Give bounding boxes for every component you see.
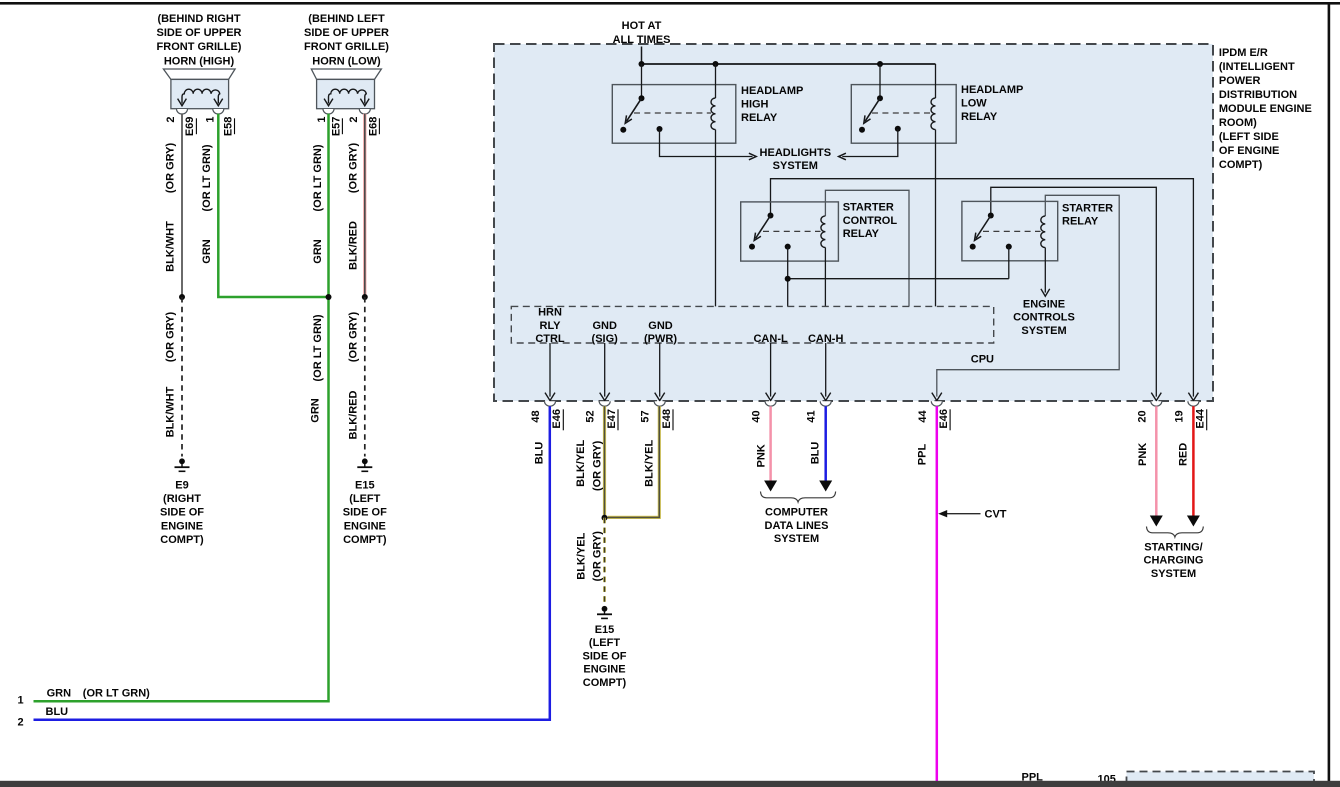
svg-text:(BEHIND RIGHT: (BEHIND RIGHT <box>157 13 240 25</box>
ground E9 <box>160 458 204 546</box>
svg-text:2: 2 <box>18 716 24 728</box>
dashed BLK/YEL wire to ground <box>575 518 604 605</box>
page frame top border <box>0 2 1340 5</box>
svg-text:20: 20 <box>1136 410 1148 422</box>
svg-text:STARTING/: STARTING/ <box>1144 541 1202 553</box>
svg-text:(OR GRY): (OR GRY) <box>165 143 177 194</box>
svg-text:RELAY: RELAY <box>741 112 778 124</box>
svg-text:DATA LINES: DATA LINES <box>765 520 829 532</box>
wire BLU pin 48 to bottom line 2 <box>34 406 550 720</box>
svg-text:19: 19 <box>1173 410 1185 422</box>
svg-text:(OR GRY): (OR GRY) <box>591 440 603 491</box>
svg-text:(OR GRY): (OR GRY) <box>347 312 359 363</box>
svg-text:E15: E15 <box>355 479 375 491</box>
horn LOW pin 2 connector <box>348 109 380 136</box>
starter relay box <box>962 201 1058 260</box>
wire PNK pin 20 <box>1137 406 1163 526</box>
page frame bottom bar <box>0 781 1340 787</box>
junction node GRN wires <box>326 294 332 300</box>
svg-text:RED: RED <box>1177 443 1189 466</box>
svg-text:CVT: CVT <box>985 509 1007 521</box>
svg-text:SIDE OF: SIDE OF <box>160 507 204 519</box>
svg-text:SYSTEM: SYSTEM <box>773 160 818 172</box>
svg-text:(OR LT GRN): (OR LT GRN) <box>83 687 150 699</box>
svg-text:GND: GND <box>648 320 673 332</box>
splice node on BLK/RED wire <box>362 294 368 300</box>
svg-text:CONTROLS: CONTROLS <box>1013 312 1075 324</box>
svg-text:CHARGING: CHARGING <box>1144 555 1204 567</box>
horn HIGH pin 2 connector <box>165 109 197 136</box>
svg-text:ENGINE: ENGINE <box>583 664 625 676</box>
svg-text:52: 52 <box>585 410 597 422</box>
starter control relay box <box>741 202 839 261</box>
svg-text:ALL TIMES: ALL TIMES <box>613 34 671 46</box>
svg-text:(OR LT GRN): (OR LT GRN) <box>312 314 324 381</box>
svg-text:E58: E58 <box>223 117 235 137</box>
wire from hot feed to bus <box>641 47 643 65</box>
svg-text:SYSTEM: SYSTEM <box>1151 568 1196 580</box>
svg-text:(OR GRY): (OR GRY) <box>165 312 177 363</box>
svg-text:HEADLAMP: HEADLAMP <box>741 85 803 97</box>
svg-text:HORN (HIGH): HORN (HIGH) <box>164 55 235 67</box>
headlamp low relay box <box>851 85 956 144</box>
wire GRN from horn LOW pin 1 down to bottom line 1 <box>34 114 329 702</box>
svg-text:GRN: GRN <box>312 239 324 264</box>
svg-text:BLU: BLU <box>46 706 69 718</box>
svg-text:E68: E68 <box>367 117 379 137</box>
svg-text:E48: E48 <box>661 409 673 429</box>
svg-text:PNK: PNK <box>755 444 767 467</box>
svg-text:(LEFT: (LEFT <box>589 637 620 649</box>
svg-text:COMPT): COMPT) <box>583 677 627 689</box>
svg-text:(INTELLIGENT: (INTELLIGENT <box>1219 61 1295 73</box>
svg-text:40: 40 <box>751 410 763 422</box>
svg-text:BLU: BLU <box>810 442 822 465</box>
headlamp high relay label <box>741 85 803 124</box>
svg-text:PPL: PPL <box>916 444 928 466</box>
svg-text:2: 2 <box>348 117 360 123</box>
ground E15 left engine compt <box>343 458 387 546</box>
svg-text:2: 2 <box>165 117 177 123</box>
node 1 label and GRN line labels <box>18 687 151 706</box>
horn LOW pin 1 connector <box>316 109 343 136</box>
svg-text:41: 41 <box>806 410 818 422</box>
junction node BLK/YEL wires <box>602 515 608 521</box>
starter relay coil and routing to pin 44 <box>937 195 1119 396</box>
svg-text:STARTER: STARTER <box>843 202 894 214</box>
horn HIGH location label <box>157 13 242 67</box>
wire BLK/YEL pin 57 <box>608 406 660 517</box>
svg-text:FRONT GRILLE): FRONT GRILLE) <box>157 41 242 53</box>
svg-text:BLK/YEL: BLK/YEL <box>575 439 587 486</box>
svg-text:HIGH: HIGH <box>741 99 769 111</box>
svg-text:BLK/RED: BLK/RED <box>347 221 359 270</box>
svg-text:(OR LT GRN): (OR LT GRN) <box>312 144 324 211</box>
svg-text:ROOM): ROOM) <box>1219 117 1257 129</box>
svg-text:STARTER: STARTER <box>1062 202 1113 214</box>
svg-text:48: 48 <box>530 410 542 422</box>
svg-text:1: 1 <box>205 117 217 123</box>
connector name labels E46 E47 E48 E46 E44 <box>551 408 1206 430</box>
svg-text:COMPT): COMPT) <box>343 534 387 546</box>
pin arrowheads at IPDM bottom edge <box>545 393 1198 401</box>
headlamp low relay coil <box>931 64 936 306</box>
CPU box (dashed) <box>511 306 993 343</box>
svg-text:COMPUTER: COMPUTER <box>765 507 828 519</box>
svg-text:GND: GND <box>592 320 617 332</box>
svg-text:OF ENGINE: OF ENGINE <box>1219 145 1280 157</box>
starter control relay coil and routing to CPU <box>821 190 909 306</box>
svg-text:RLY: RLY <box>540 320 562 332</box>
headlamp low relay label <box>961 84 1023 123</box>
headlamp high relay box <box>612 85 736 144</box>
svg-text:IPDM E/R: IPDM E/R <box>1219 47 1268 59</box>
svg-text:(LEFT SIDE: (LEFT SIDE <box>1219 131 1279 143</box>
svg-text:E47: E47 <box>606 409 618 429</box>
svg-text:(LEFT: (LEFT <box>349 493 380 505</box>
headlamp high relay coil <box>711 64 716 306</box>
starter control relay switch <box>749 213 821 250</box>
svg-text:E57: E57 <box>330 117 342 137</box>
svg-text:GRN: GRN <box>47 687 72 699</box>
svg-text:BLK/YEL: BLK/YEL <box>575 532 587 579</box>
horn LOW location label <box>304 13 389 67</box>
svg-text:(PWR): (PWR) <box>644 333 677 345</box>
svg-text:E15: E15 <box>595 624 615 636</box>
svg-text:E69: E69 <box>184 117 196 137</box>
wire starter relay common to pin 20 <box>991 187 1157 396</box>
headlamp high relay output to headlights system <box>657 126 757 160</box>
headlamp high relay switch <box>620 64 711 133</box>
svg-text:E44: E44 <box>1195 408 1207 428</box>
svg-text:MODULE ENGINE: MODULE ENGINE <box>1219 103 1312 115</box>
splice node on BLK/WHT wire <box>179 294 185 300</box>
wire BLU pin 41 CAN-H <box>810 406 833 491</box>
svg-text:SIDE OF UPPER: SIDE OF UPPER <box>157 27 242 39</box>
svg-text:CPU: CPU <box>971 353 994 365</box>
svg-text:DISTRIBUTION: DISTRIBUTION <box>1219 89 1297 101</box>
svg-text:SYSTEM: SYSTEM <box>774 533 819 545</box>
svg-text:HEADLIGHTS: HEADLIGHTS <box>760 147 832 159</box>
svg-text:1: 1 <box>18 695 24 707</box>
page frame right border <box>1328 2 1331 781</box>
svg-text:BLU: BLU <box>534 442 546 465</box>
starter relay label <box>1062 202 1113 227</box>
svg-text:BLK/YEL: BLK/YEL <box>643 439 655 486</box>
svg-text:GRN: GRN <box>309 398 321 423</box>
engine controls system label <box>1013 298 1075 337</box>
svg-text:POWER: POWER <box>1219 75 1261 87</box>
svg-text:COMPT): COMPT) <box>1219 159 1263 171</box>
headlights system label <box>760 147 832 172</box>
CPU outputs to connector pins <box>550 343 826 397</box>
svg-text:44: 44 <box>917 410 929 423</box>
next-section partial dashed box bottom right <box>1127 772 1315 786</box>
svg-text:(OR LT GRN): (OR LT GRN) <box>201 144 213 211</box>
horn HIGH symbol <box>163 69 235 109</box>
headlamp low relay switch <box>859 64 931 133</box>
svg-text:BLK/WHT: BLK/WHT <box>165 221 177 272</box>
svg-text:CONTROL: CONTROL <box>843 215 898 227</box>
svg-text:BLK/WHT: BLK/WHT <box>165 386 177 437</box>
svg-text:ENGINE: ENGINE <box>1023 298 1065 310</box>
svg-text:RELAY: RELAY <box>843 228 880 240</box>
computer data lines system brace and label <box>761 492 836 546</box>
wire PPL pin 44 to CVT <box>916 406 936 781</box>
svg-text:ENGINE: ENGINE <box>344 520 386 532</box>
svg-text:E46: E46 <box>938 409 950 429</box>
wire PNK pin 40 CAN-L <box>755 406 777 491</box>
svg-text:COMPT): COMPT) <box>160 534 204 546</box>
starter relay output wire <box>1006 244 1012 279</box>
svg-text:HRN: HRN <box>538 307 562 319</box>
svg-text:(OR GRY): (OR GRY) <box>347 143 359 194</box>
CPU pin function labels <box>535 307 843 346</box>
IPDM E/R module box (dashed, light blue) <box>494 44 1213 401</box>
svg-text:HOT AT: HOT AT <box>622 20 662 32</box>
svg-text:SIDE OF UPPER: SIDE OF UPPER <box>304 27 389 39</box>
HOT AT ALL TIMES label <box>613 20 671 46</box>
svg-text:1: 1 <box>316 117 328 123</box>
svg-text:SYSTEM: SYSTEM <box>1021 325 1066 337</box>
horn LOW coil <box>324 89 369 106</box>
starter control relay label <box>843 202 898 241</box>
svg-text:SIDE OF: SIDE OF <box>582 650 626 662</box>
ground E15 for BLK/YEL <box>582 606 626 689</box>
starting charging system brace and label <box>1144 527 1204 581</box>
svg-text:(RIGHT: (RIGHT <box>163 493 201 505</box>
svg-text:FRONT GRILLE): FRONT GRILLE) <box>304 41 389 53</box>
horn HIGH coil <box>178 89 223 106</box>
svg-text:GRN: GRN <box>201 239 213 264</box>
wire BLK/WHT from horn HIGH pin 2 <box>165 114 182 297</box>
horn LOW symbol <box>311 69 381 109</box>
svg-text:BLK/RED: BLK/RED <box>347 391 359 440</box>
svg-text:57: 57 <box>640 410 652 422</box>
horn HIGH pin 1 connector <box>205 109 235 136</box>
wire BLK/YEL pin 52 <box>575 406 604 518</box>
svg-text:RELAY: RELAY <box>961 111 998 123</box>
svg-text:E9: E9 <box>175 479 188 491</box>
svg-text:ENGINE: ENGINE <box>161 520 203 532</box>
wire BLK/RED from horn LOW pin 2 <box>347 114 365 297</box>
svg-text:HEADLAMP: HEADLAMP <box>961 84 1023 96</box>
svg-text:PNK: PNK <box>1137 443 1149 466</box>
starter control relay output wire <box>785 244 1009 307</box>
starter relay switch <box>970 213 1041 250</box>
wire GRN from horn HIGH pin 1 <box>201 114 329 297</box>
svg-text:HORN (LOW): HORN (LOW) <box>312 55 381 67</box>
dashed BLK/WHT wire to ground <box>165 297 182 457</box>
power bus inside IPDM <box>642 63 936 65</box>
dashed BLK/RED wire to ground <box>347 297 365 457</box>
wire RED pin 19 <box>1177 406 1200 526</box>
svg-text:(BEHIND LEFT: (BEHIND LEFT <box>308 13 385 25</box>
feed wire to starter relays and pin 19 <box>771 179 1194 397</box>
IPDM E/R label <box>1219 47 1312 171</box>
CVT callout <box>938 509 1007 521</box>
svg-text:(OR GRY): (OR GRY) <box>592 531 604 582</box>
bus junction nodes <box>639 61 884 67</box>
headlamp low relay output to headlights system <box>839 126 901 160</box>
svg-text:LOW: LOW <box>961 98 987 110</box>
IPDM bottom connector bumps <box>545 401 1199 406</box>
svg-text:RELAY: RELAY <box>1062 216 1099 228</box>
svg-text:SIDE OF: SIDE OF <box>343 507 387 519</box>
node 2 label and BLU line <box>18 706 69 728</box>
svg-text:E46: E46 <box>551 409 563 429</box>
pin number labels <box>530 410 1185 423</box>
